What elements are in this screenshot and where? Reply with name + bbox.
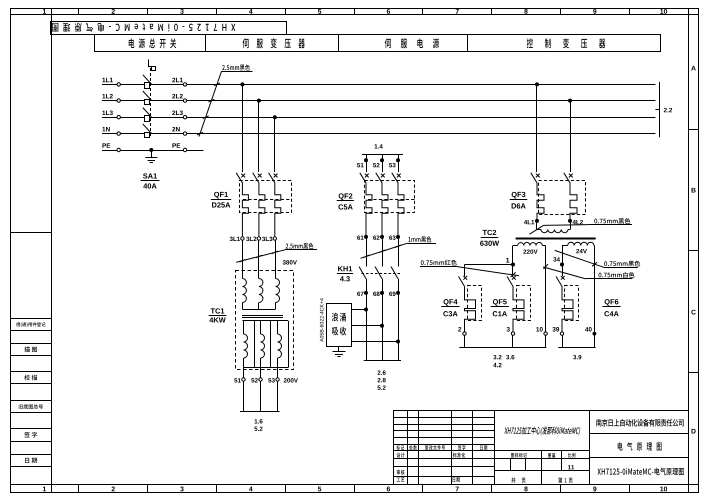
terminal bar TC1 output xyxy=(240,411,280,413)
wire 24V right to terminal 40 xyxy=(594,246,596,332)
ground PE at SA1 xyxy=(145,148,157,163)
wires TC1 output xyxy=(244,381,278,411)
breaker QF2 pole 3 trip element xyxy=(398,183,404,237)
terminal 39 xyxy=(552,327,563,348)
sheet ref 1.4 xyxy=(375,144,383,148)
transformer TC1 dashed enclosure xyxy=(236,271,294,370)
sheet refs 2.6 2.8 5.2 xyxy=(377,370,385,389)
breaker QF1 pole 3 contact xyxy=(269,173,278,184)
transformer TC1 secondary rail xyxy=(242,320,288,322)
breaker QF5 dashed enclosure xyxy=(517,286,531,321)
breaker QF4 contact and trip xyxy=(459,276,476,332)
wire 220V right to terminal 10 xyxy=(545,246,547,332)
transformer TC2 core xyxy=(516,238,596,240)
wires surge absorber taps xyxy=(351,310,398,342)
transformer TC2 secondary 220V winding xyxy=(513,242,546,245)
transformer TC2 secondary 24V winding xyxy=(562,242,594,245)
wire bus 2L3 xyxy=(187,117,656,119)
transformer TC1 primary winding 2 xyxy=(259,271,263,310)
transformer TC1 primary star bar xyxy=(242,309,275,311)
switch SA1 handle xyxy=(148,60,156,71)
transformer TC1 label xyxy=(209,308,227,322)
bus continuation bracket 2.2 xyxy=(655,82,672,137)
transformer TC1 primary winding 1 xyxy=(242,271,246,310)
breaker QF3 pole 2 trip element xyxy=(570,183,577,219)
breaker QF1 pole 1 drop wire xyxy=(242,84,244,172)
ground surge absorber xyxy=(333,347,346,357)
breaker QF2 pole 3 contact xyxy=(392,173,401,184)
wires KH1 down to bar xyxy=(367,293,399,361)
breaker QF1 pole 2 drop wire xyxy=(258,101,260,172)
breaker QF1 pole 1 contact xyxy=(236,173,245,184)
wire bus 2L2 xyxy=(187,100,656,102)
title block company name xyxy=(596,419,684,427)
breaker QF1 pole 3 trip element xyxy=(275,183,281,236)
terminal bar QF6 group xyxy=(558,347,596,349)
breaker QF4 dashed enclosure xyxy=(468,286,482,321)
wire QF2 pole 3 input xyxy=(389,154,400,172)
breaker QF2 pole 1 trip element xyxy=(366,183,372,237)
value label 200V xyxy=(284,378,298,382)
switch SA1 pole 1L3-2L3 xyxy=(102,108,187,122)
breaker QF3 pole 1 contact xyxy=(531,173,540,184)
breaker QF3 pole 1 trip element xyxy=(537,183,544,219)
breaker QF1 pole 1 trip element xyxy=(242,183,248,236)
border bottom column ticks xyxy=(79,484,630,492)
rotated drawing-number box xyxy=(51,22,287,35)
wire PE stub xyxy=(187,150,204,152)
function header row xyxy=(95,35,661,52)
relay KH1 pole 3 xyxy=(391,237,399,293)
wires QF1 to TC1 xyxy=(243,240,276,270)
junction dots surge taps xyxy=(364,308,400,344)
left margin record block xyxy=(10,319,52,467)
value label 24V xyxy=(576,249,587,253)
feeder bar for QF2 xyxy=(362,154,403,156)
junction dots on buses xyxy=(240,82,572,119)
wire gauge label 0.75mm black (24V) xyxy=(555,250,641,267)
terminal bar QF4 QF5 group xyxy=(459,347,546,349)
wire bus 2N xyxy=(187,133,656,135)
border top column ticks xyxy=(79,8,630,15)
breaker QF3 pole 2 drop wire xyxy=(570,101,572,172)
node labels 3L1 3L2 3L3 xyxy=(230,237,277,241)
title block product name xyxy=(504,426,581,435)
wire gauge label 1mm black xyxy=(360,236,436,258)
node 4L2 xyxy=(568,219,583,224)
breaker QF3 pole 2 contact xyxy=(564,173,573,184)
node 34 xyxy=(553,246,564,267)
border top column numbers 1-10 xyxy=(43,9,667,14)
breaker QF5 input wire xyxy=(512,266,514,276)
breaker QF6 label xyxy=(602,299,620,316)
sheet refs 3.2 4.2 3.6 xyxy=(493,355,514,367)
wire QF2 pole 1 input xyxy=(357,154,368,172)
switch SA1 pole 1L1-2L1 xyxy=(102,75,187,89)
switch SA1 linkage xyxy=(150,68,152,136)
terminal 2 xyxy=(458,327,466,348)
breaker QF1 pole 2 contact xyxy=(253,173,262,184)
wire bus 2L1 xyxy=(187,84,656,86)
transformer TC1 secondary windings xyxy=(244,321,289,378)
switch SA1 pole PE-PE xyxy=(102,143,187,151)
terminal 10 xyxy=(536,327,547,348)
wire gauge label 0.75mm black (TC2 primary) xyxy=(530,218,633,234)
title block stage headers xyxy=(511,453,575,458)
wire node 1 to QF4 xyxy=(465,265,514,277)
wire gauge label 0.75mm red xyxy=(420,260,519,277)
breaker QF2 pole 1 contact xyxy=(360,173,369,184)
breaker QF6 dashed enclosure xyxy=(565,286,579,321)
transformer TC2 primary winding xyxy=(537,221,571,233)
border right row ticks xyxy=(689,130,698,373)
breaker QF4 label xyxy=(441,299,459,316)
relay KH1 pole 2 xyxy=(375,237,383,293)
terminal 40 xyxy=(585,327,596,348)
wire gauge label 0.75mm white xyxy=(543,264,635,279)
breaker QF2 dashed enclosure xyxy=(365,181,415,213)
title block grid xyxy=(393,411,689,485)
value label 380V xyxy=(283,260,297,264)
breaker QF1 pole 3 drop wire xyxy=(274,117,276,172)
breaker QF2 pole 2 contact xyxy=(376,173,385,184)
terminals 51 52 53 of TC1 xyxy=(234,378,279,383)
terminal 3 xyxy=(507,327,515,348)
switch SA1 pole 1N-2N xyxy=(102,124,187,138)
wire gauge label 2.5mm black (buses) xyxy=(197,64,253,136)
wire gauge label 2.5mm black (TC1 feed) xyxy=(236,243,317,262)
breaker QF2 label xyxy=(337,193,354,209)
breaker QF6 contact and trip xyxy=(556,276,573,332)
sheet refs 1.6 5.2 xyxy=(254,419,262,431)
breaker QF5 label xyxy=(491,299,509,316)
transformer TC2 label xyxy=(480,230,499,246)
node labels 61 62 63 xyxy=(357,235,400,240)
breaker QF6 input wire xyxy=(562,266,564,276)
title block scale value xyxy=(568,465,574,469)
title block drawing number xyxy=(597,468,683,476)
value label 220V xyxy=(523,249,537,253)
breaker QF2 pole 2 trip element xyxy=(382,183,388,237)
switch SA1 pole 1L2-2L2 xyxy=(102,91,187,105)
transformer TC1 primary winding 3 xyxy=(276,271,280,310)
breaker QF3 dashed enclosure xyxy=(539,181,586,215)
border left divider xyxy=(10,232,52,234)
title block revision headers xyxy=(396,445,487,450)
breaker QF1 dashed enclosure xyxy=(240,181,292,213)
node 4L1 xyxy=(524,219,539,224)
title block signature labels xyxy=(397,453,466,482)
title block drawing type xyxy=(618,442,662,451)
surge absorber part number xyxy=(320,298,324,342)
border right row letters A-D xyxy=(691,66,696,434)
wire QF2 pole 2 input xyxy=(373,154,384,172)
breaker QF5 contact and trip xyxy=(507,276,524,332)
sheet ref 3.9 xyxy=(573,355,581,359)
surge absorber box xyxy=(327,304,352,347)
terminal bar servo power xyxy=(364,360,401,362)
breaker QF3 label xyxy=(510,192,528,209)
relay KH1 linkage xyxy=(362,273,401,275)
breaker QF1 label xyxy=(211,192,231,208)
switch SA1 label xyxy=(141,173,160,188)
breaker QF1 pole 2 trip element xyxy=(259,183,265,236)
relay KH1 label xyxy=(337,266,353,281)
node 1 xyxy=(506,246,515,267)
title block page labels xyxy=(511,477,572,483)
transformer TC1 core xyxy=(242,316,283,318)
node labels 67 68 69 xyxy=(357,291,400,296)
breaker QF3 pole 1 drop wire xyxy=(536,84,538,172)
border bottom column numbers 1-10 xyxy=(43,487,667,492)
relay KH1 pole 1 xyxy=(359,237,367,293)
